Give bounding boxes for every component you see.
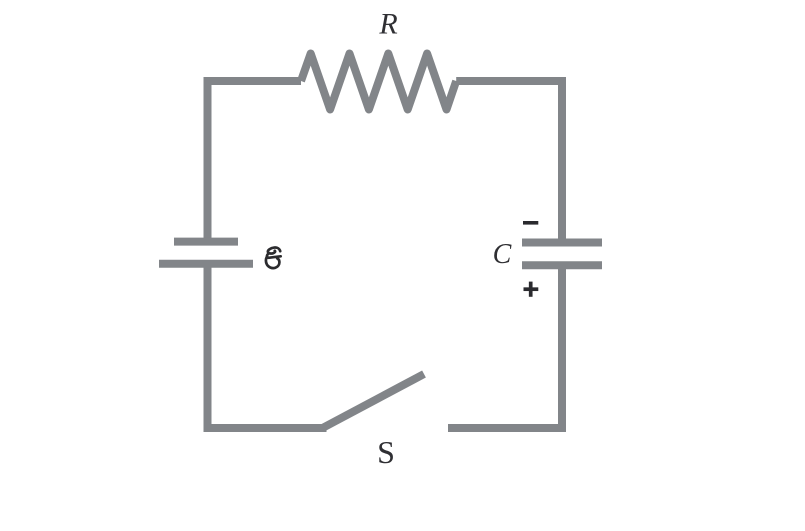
svg-text:S: S <box>377 434 395 470</box>
capacitor C bottom plate <box>522 261 602 269</box>
label minus (capacitor top polarity) <box>523 221 538 225</box>
wire top-right: resistor to top-right corner to capacitor <box>456 81 562 243</box>
label R <box>378 8 397 41</box>
wire bottom-left: battery down, left to switch pivot, switch arm <box>208 264 327 428</box>
capacitor C top plate <box>522 239 602 247</box>
wire bottom-right: switch gap to bottom-right corner up to capacitor <box>448 265 562 428</box>
svg-text:R: R <box>378 8 397 41</box>
resistor R <box>301 54 456 110</box>
label C <box>493 239 512 270</box>
battery EMF label script-E <box>266 248 281 269</box>
battery EMF bottom plate (long) <box>159 260 253 268</box>
label plus (capacitor bottom polarity) <box>524 282 539 297</box>
battery EMF top plate (short) <box>174 238 238 246</box>
label S <box>377 434 395 470</box>
svg-text:C: C <box>493 239 512 270</box>
switch S arm <box>323 374 425 428</box>
wire top-left: battery to top-left corner to resistor <box>208 81 302 240</box>
